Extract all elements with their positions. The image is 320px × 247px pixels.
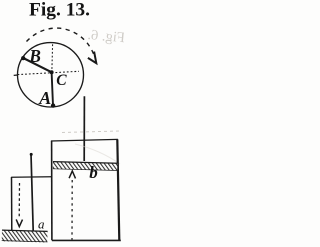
left edge tick	[14, 74, 18, 76]
svg-text:Fig. 6.: Fig. 6.	[87, 27, 124, 46]
svg-text:B: B	[28, 46, 41, 66]
cylinder b right wall	[117, 139, 119, 240]
piston rod b	[83, 96, 85, 161]
node A	[51, 103, 55, 107]
crank rod C A	[52, 72, 53, 105]
svg-text:Fig. 13.: Fig. 13.	[29, 0, 90, 20]
piston b hatched plate	[53, 161, 118, 170]
cylinder a left wall	[11, 177, 13, 233]
piston a hatched plate	[2, 230, 48, 243]
upward stroke arrow in b (dashed)	[71, 180, 73, 240]
svg-text:A: A	[38, 88, 51, 108]
cylinder a rim	[11, 176, 51, 178]
bleed-through arc in cylinder b	[75, 144, 120, 164]
svg-text:C: C	[56, 72, 67, 89]
radius B C	[23, 58, 51, 72]
cylinder b rim	[51, 139, 118, 141]
cylinder b bottom	[52, 239, 121, 241]
bleed-through mirrored caption "Fig. 6."	[87, 27, 126, 46]
node C	[50, 70, 54, 74]
rotation arrow dashed arc	[27, 28, 94, 54]
piston rod a	[31, 154, 33, 231]
node B	[21, 56, 25, 60]
crank circle	[18, 43, 84, 107]
upward arrowhead	[69, 171, 75, 178]
svg-text:a: a	[38, 216, 45, 231]
dashed vertical radius	[51, 44, 54, 70]
rod a top knob	[30, 153, 33, 156]
dashed horizontal diameter	[18, 71, 80, 74]
downward arrowhead	[16, 219, 22, 226]
bleed-through dashes above cylinder b	[62, 131, 119, 133]
cylinder b left wall	[51, 141, 53, 240]
svg-text:b: b	[89, 163, 98, 182]
downward stroke arrow in a (dashed)	[18, 183, 20, 219]
rotation arrowhead	[88, 52, 96, 64]
